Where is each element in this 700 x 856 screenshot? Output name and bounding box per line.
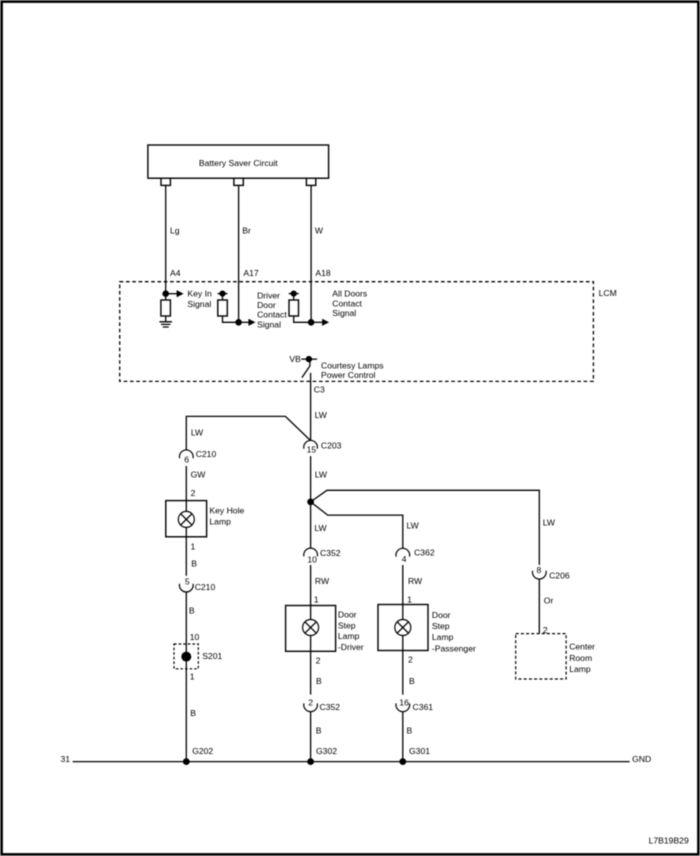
svg-text:Lamp: Lamp	[338, 631, 360, 641]
svg-text:C210: C210	[196, 449, 217, 459]
svg-text:Step: Step	[338, 620, 356, 630]
svg-text:LW: LW	[315, 470, 328, 480]
lamp: Center Room Lamp dashed box	[516, 634, 595, 679]
svg-text:1: 1	[314, 594, 319, 604]
svg-text:B: B	[190, 708, 196, 718]
svg-text:2: 2	[191, 488, 196, 498]
node main junction	[307, 499, 314, 506]
svg-text:B: B	[191, 558, 197, 568]
connector C203 pin 15	[304, 440, 342, 454]
svg-text:G301: G301	[409, 746, 430, 756]
svg-text:L7B19B29: L7B19B29	[649, 835, 689, 845]
terminal tab pin A18	[306, 178, 315, 185]
splice S201	[174, 644, 222, 669]
wire branch to key hole lamp	[186, 416, 310, 450]
connector C361 pin 16	[396, 698, 433, 712]
svg-text:LW: LW	[543, 517, 556, 527]
connector C362 pin 4	[396, 520, 435, 564]
svg-text:C203: C203	[321, 440, 342, 450]
svg-text:1: 1	[190, 672, 195, 682]
svg-text:B: B	[409, 676, 415, 686]
wire C203 to junction	[310, 456, 312, 502]
wire C361 to G301	[403, 711, 413, 761]
svg-text:1: 1	[407, 594, 412, 604]
svg-text:A4: A4	[170, 268, 181, 278]
svg-text:Lamp: Lamp	[432, 632, 454, 642]
arrow All Doors Contact Signal	[311, 289, 367, 326]
svg-text:Battery Saver Circuit: Battery Saver Circuit	[199, 158, 278, 168]
svg-text:1: 1	[191, 541, 196, 551]
svg-text:W: W	[315, 225, 324, 235]
connector C206 pin 8	[532, 565, 569, 580]
node G301	[399, 746, 430, 765]
resistor R3 all doors pull-up	[289, 291, 311, 323]
svg-text:10: 10	[307, 555, 317, 565]
wire driver lamp to C352 pin 2	[311, 651, 322, 694]
svg-text:G302: G302	[316, 746, 337, 756]
svg-text:C352: C352	[320, 548, 341, 558]
svg-text:15: 15	[307, 445, 317, 455]
wire Lg (A4)	[166, 185, 181, 293]
svg-text:Door: Door	[338, 609, 357, 619]
svg-text:Power Control: Power Control	[321, 370, 376, 380]
svg-text:B: B	[189, 605, 195, 615]
svg-text:C210: C210	[195, 582, 216, 592]
svg-text:LW: LW	[314, 523, 327, 533]
lamp: Key Hole Lamp	[166, 501, 245, 537]
svg-text:C352: C352	[320, 702, 341, 712]
svg-text:Door: Door	[432, 610, 451, 620]
arrow Driver Door Contact Signal	[239, 290, 288, 329]
ground bus 31/GND	[60, 754, 651, 764]
svg-text:All Doors: All Doors	[332, 289, 367, 299]
connector C210 pin 5	[179, 577, 215, 593]
wire key hole lamp to C210 pin 5	[186, 537, 197, 576]
node G202	[183, 746, 214, 765]
LCM module dashed box	[120, 282, 617, 382]
svg-text:Contact: Contact	[257, 310, 287, 320]
svg-text:G202: G202	[192, 746, 213, 756]
wire Or to center room lamp	[539, 579, 553, 635]
node A17 junction	[235, 319, 242, 326]
arrow Key In Signal	[166, 289, 212, 310]
wire GW to key hole lamp	[186, 466, 206, 501]
wire Br (A17)	[239, 185, 259, 322]
svg-text:Key Hole: Key Hole	[209, 505, 244, 515]
svg-text:B: B	[316, 726, 322, 736]
wire C210 to S201	[186, 592, 199, 644]
box U1 Battery Saver Circuit	[148, 145, 329, 178]
wire C3 to C203	[311, 373, 328, 441]
svg-text:B: B	[407, 726, 413, 736]
svg-text:GW: GW	[191, 470, 207, 480]
svg-text:2: 2	[408, 654, 413, 664]
resistor R1 key-in pulldown	[161, 294, 171, 322]
svg-text:C362: C362	[414, 547, 435, 557]
connector C352 pin 10	[304, 548, 341, 565]
terminal tab pin A17	[234, 178, 243, 185]
svg-text:VB: VB	[289, 354, 301, 364]
svg-text:Signal: Signal	[187, 299, 211, 309]
svg-text:RW: RW	[315, 576, 330, 586]
svg-text:GND: GND	[632, 754, 651, 764]
wire RW to driver step lamp	[311, 565, 330, 606]
svg-text:6: 6	[184, 455, 189, 465]
resistor R2 driver door pull-up	[218, 291, 239, 323]
svg-text:Br: Br	[242, 225, 251, 235]
svg-text:S201: S201	[202, 651, 222, 661]
ground	[159, 322, 172, 327]
svg-text:LW: LW	[407, 520, 420, 530]
lamp: Door Step Lamp -Passenger	[378, 605, 476, 654]
svg-text:LW: LW	[191, 427, 204, 437]
connector C210 pin 6	[179, 449, 216, 464]
svg-text:10: 10	[190, 632, 200, 642]
wire branch to center room lamp	[311, 490, 540, 565]
svg-text:Signal: Signal	[257, 319, 281, 329]
node A18 junction	[308, 319, 315, 326]
svg-text:LCM: LCM	[599, 288, 617, 298]
svg-text:4: 4	[402, 554, 407, 564]
wire branch to passenger step lamp	[311, 502, 403, 549]
svg-text:Center: Center	[569, 642, 595, 652]
wire C352 to G302	[311, 711, 322, 761]
svg-text:2: 2	[316, 655, 321, 665]
wire junction to C352	[311, 502, 328, 548]
svg-text:Door: Door	[257, 300, 276, 310]
svg-text:A17: A17	[243, 268, 259, 278]
node G302	[307, 746, 337, 765]
svg-text:Driver: Driver	[257, 290, 280, 300]
wire S201 to G202	[186, 669, 196, 762]
svg-text:-Passenger: -Passenger	[432, 644, 476, 654]
wire LW to C206	[543, 517, 556, 527]
switch SW1 courtesy lamps power control (node VB)	[289, 354, 383, 380]
lamp: Door Step Lamp -Driver	[286, 606, 364, 653]
svg-text:RW: RW	[408, 576, 423, 586]
svg-text:-Driver: -Driver	[338, 642, 364, 652]
svg-text:5: 5	[185, 577, 190, 587]
svg-text:C3: C3	[314, 384, 325, 394]
svg-text:Key In: Key In	[187, 289, 212, 299]
svg-text:8: 8	[537, 565, 542, 575]
node A4 junction	[162, 290, 169, 297]
svg-text:Lamp: Lamp	[209, 516, 231, 526]
svg-text:Signal: Signal	[332, 308, 356, 318]
svg-text:Room: Room	[569, 653, 592, 663]
svg-text:LW: LW	[315, 410, 328, 420]
svg-text:B: B	[316, 676, 322, 686]
terminal tab pin A4	[161, 178, 170, 185]
svg-text:Or: Or	[544, 595, 554, 605]
wire passenger lamp to C361 pin 16	[403, 651, 415, 695]
svg-text:31: 31	[60, 754, 70, 764]
wire RW to passenger step lamp	[403, 565, 423, 605]
svg-text:C361: C361	[413, 702, 434, 712]
svg-text:Step: Step	[432, 621, 450, 631]
svg-text:C206: C206	[549, 571, 570, 581]
svg-text:2: 2	[308, 698, 313, 708]
svg-text:Lg: Lg	[170, 225, 180, 235]
svg-text:A18: A18	[315, 268, 331, 278]
wire W (A18)	[311, 185, 331, 322]
svg-text:16: 16	[399, 698, 409, 708]
svg-text:Courtesy Lamps: Courtesy Lamps	[321, 361, 384, 371]
connector C352 pin 2	[304, 698, 341, 712]
svg-text:Lamp: Lamp	[569, 664, 591, 674]
